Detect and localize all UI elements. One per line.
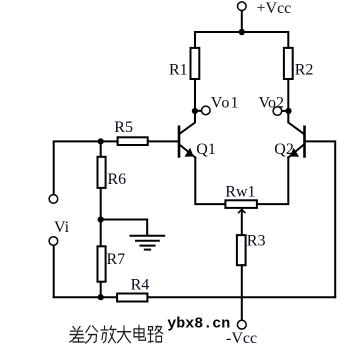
wire Q2 emitter drop	[257, 158, 288, 205]
resistor R6	[98, 157, 106, 188]
svg-text:Vi: Vi	[54, 219, 70, 236]
wire top rail	[195, 32, 288, 47]
wire R6 top lead	[100, 141, 102, 156]
resistor R2	[284, 48, 293, 79]
-Vcc terminal	[237, 320, 246, 329]
svg-text:+Vcc: +Vcc	[257, 0, 292, 17]
wire R5 left to input corner	[54, 141, 118, 194]
wire R3 bottom to -Vcc	[241, 265, 243, 320]
wire bottom rail left	[54, 296, 117, 298]
char 电	[134, 325, 146, 340]
node R6/R7 junction	[98, 216, 104, 222]
svg-text:Vo1: Vo1	[211, 94, 240, 111]
wire right riser	[306, 141, 336, 297]
node Vo2 junction	[285, 108, 291, 114]
wire Q1 base to R5	[149, 140, 178, 142]
svg-text:R6: R6	[108, 171, 127, 188]
svg-text:Rw1: Rw1	[225, 184, 255, 201]
resistor R7	[98, 246, 106, 281]
ground	[131, 236, 165, 250]
wire R2 bottom to Q2 collector	[288, 79, 303, 133]
Vi lower terminal	[49, 237, 58, 246]
svg-text:-Vcc: -Vcc	[226, 330, 257, 347]
wire wiper to R3	[241, 209, 243, 235]
char 分	[86, 326, 98, 343]
wire ground branch	[101, 220, 148, 236]
potentiometer Rw1	[225, 200, 257, 208]
char 差	[70, 327, 84, 342]
wire Q1 emitter drop	[195, 158, 225, 205]
svg-text:R7: R7	[107, 251, 126, 268]
svg-text:Q2: Q2	[274, 141, 294, 158]
wire R7 top lead	[100, 220, 102, 247]
wire Vo2 stub	[282, 110, 288, 112]
node junction top rail	[239, 29, 245, 35]
transistor Q2 emitter	[288, 145, 303, 158]
svg-text:R2: R2	[295, 62, 314, 79]
resistor R3	[237, 235, 246, 265]
wire bottom rail right	[148, 296, 335, 298]
svg-text:Q1: Q1	[196, 141, 216, 158]
transistor Q2 emitter arrow	[291, 149, 299, 157]
Vo2 terminal	[273, 107, 282, 116]
transistor Q2 base bar	[303, 127, 306, 157]
wire R7 bottom lead	[100, 282, 102, 297]
node Vo1 junction	[192, 108, 198, 114]
svg-text:R5: R5	[114, 119, 133, 136]
node R5/R6 junction	[98, 138, 104, 144]
char 放	[101, 326, 116, 343]
char 大	[118, 326, 131, 343]
resistor R5	[118, 137, 148, 145]
wire Vo1 stub	[195, 110, 201, 112]
transistor Q1 emitter	[180, 145, 195, 158]
char 路	[148, 326, 163, 342]
svg-text:Vo2: Vo2	[259, 94, 285, 111]
wire R1 bottom to Q1 collector	[180, 79, 195, 133]
node bottom rail junction	[98, 294, 104, 300]
transistor Q1 base bar	[178, 127, 181, 157]
svg-text:R1: R1	[169, 62, 188, 79]
Vo1 terminal	[202, 106, 211, 115]
svg-text:R3: R3	[247, 233, 266, 250]
wire Vi lower to bottom rail	[53, 246, 55, 298]
svg-text:R4: R4	[131, 277, 150, 294]
svg-text:ybx8.cn: ybx8.cn	[167, 316, 230, 333]
title 差分放大电路 hand-drawn	[70, 325, 163, 343]
resistor R4	[117, 294, 147, 302]
Vi upper terminal	[49, 195, 58, 204]
Rw1 wiper arrow	[239, 210, 245, 213]
transistor Q1 emitter arrow	[185, 149, 193, 157]
+Vcc terminal	[238, 2, 247, 11]
wire R6 bottom lead	[100, 188, 102, 219]
resistor R1	[191, 48, 200, 79]
wire +Vcc stub	[241, 11, 243, 32]
